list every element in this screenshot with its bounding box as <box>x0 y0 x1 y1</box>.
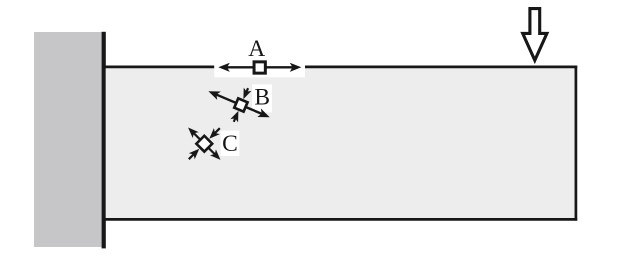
stress square C (rotated 45) <box>196 136 212 152</box>
element B: inclined principal stress element <box>201 74 277 134</box>
beam top edge (left segment) <box>105 66 214 69</box>
svg-text:B: B <box>254 85 270 111</box>
arrowhead C up-left (outward) <box>188 128 199 139</box>
wire: B top compression arrow <box>245 88 248 95</box>
wire: element A axis line <box>226 66 294 68</box>
beam right edge <box>575 66 578 221</box>
wire: C down-right tension arrow <box>208 148 215 155</box>
label C background <box>221 131 240 156</box>
arrowhead C down-left (into square) <box>189 149 200 160</box>
arrowhead B top (into square) <box>240 88 252 101</box>
wire: C up-left tension arrow <box>194 133 201 140</box>
applied load arrow (hollow, downward) <box>523 9 547 61</box>
arrowhead C up-right (into square) <box>209 128 220 139</box>
arrowhead B up-left <box>207 87 221 100</box>
cantilever beam <box>106 66 577 221</box>
element A: horizontal tension arrows <box>218 63 301 72</box>
wire: B bottom compression arrow <box>234 115 237 122</box>
wire: C up-right compression arrow <box>214 128 220 134</box>
arrowhead A left <box>218 63 230 72</box>
svg-text:C: C <box>222 131 238 157</box>
label B background <box>252 84 272 112</box>
svg-text:A: A <box>248 36 265 62</box>
element C: pure shear element <box>188 128 220 160</box>
wall face line <box>102 32 106 249</box>
arrowhead A right <box>290 63 302 72</box>
stress square B <box>234 98 247 111</box>
arrowhead B down-right <box>257 109 271 122</box>
beam bottom edge <box>105 218 577 221</box>
arrowhead B bottom (into square) <box>230 109 242 122</box>
beam top edge (right segment) <box>305 66 577 69</box>
stress square A <box>254 62 265 73</box>
white band behind element A <box>214 55 305 77</box>
arrowhead C down-right (outward) <box>210 149 221 160</box>
wire: element B axis line <box>215 94 264 115</box>
fixed wall support <box>34 32 102 247</box>
wire: C down-left compression arrow <box>189 153 195 159</box>
